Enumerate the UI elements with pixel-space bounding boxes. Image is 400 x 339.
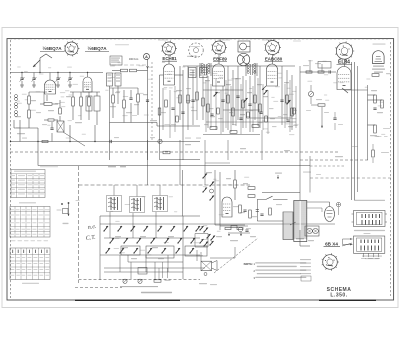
svg-text:ECH81: ECH81 (162, 56, 177, 61)
svg-text:½6BQ7A: ½6BQ7A (87, 45, 107, 51)
svg-text:460 Kc/s: 460 Kc/s (129, 58, 139, 61)
svg-text:EABC80: EABC80 (265, 57, 283, 62)
svg-text:L.350.: L.350. (330, 293, 347, 299)
svg-text:NOTA:: NOTA: (244, 262, 253, 266)
svg-text:A: A (145, 54, 148, 59)
svg-text:6B X4: 6B X4 (325, 242, 338, 247)
svg-text:EBF89: EBF89 (213, 57, 227, 62)
svg-text:n.e.: n.e. (87, 224, 96, 231)
svg-text:½6BQ7A: ½6BQ7A (42, 45, 62, 51)
